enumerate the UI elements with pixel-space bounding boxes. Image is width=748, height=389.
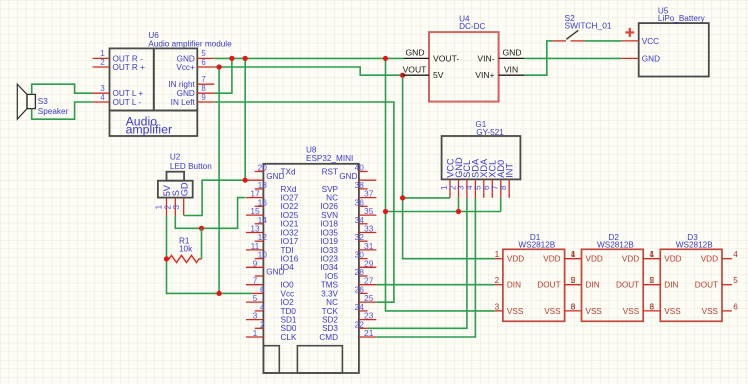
U6 pin 9 IN Left (171, 93, 215, 107)
U8 pin 35 SVN (right) (321, 206, 376, 220)
svg-text:VCC: VCC (642, 37, 659, 46)
junction node Vcc x219.1 (217, 64, 222, 69)
svg-text:10k: 10k (179, 245, 193, 254)
U8 pin 3 SD1 (left) (246, 311, 297, 325)
svg-text:GND: GND (266, 268, 284, 277)
svg-text:WS2812B: WS2812B (676, 241, 713, 250)
svg-text:DOUT: DOUT (616, 281, 639, 290)
svg-text:9: 9 (201, 93, 205, 102)
D2 pin 4 VDD (622, 250, 660, 263)
svg-text:38: 38 (355, 180, 365, 190)
U8 pin 32 IO19 (right) (320, 232, 367, 246)
U8 pin 11 TDI (left) (246, 241, 294, 255)
G1 pin 3 SCL (456, 160, 473, 198)
svg-text:1: 1 (571, 250, 576, 259)
D1 pin 3 VSS (495, 302, 524, 315)
svg-text:IO22: IO22 (281, 202, 299, 211)
plus polarity mark (625, 28, 634, 37)
U4 pin 5V stub with VOUT label (403, 64, 429, 75)
gyroscope module G1 GY-521 (442, 120, 521, 179)
U8 pin 1 CLK (left) (246, 328, 297, 342)
U8 pin 13 IO32 (left) (246, 224, 299, 238)
svg-text:IO2: IO2 (281, 298, 295, 307)
D2 pin 1 VDD (571, 250, 603, 263)
U6 pin 8 GND (177, 84, 215, 98)
wire GND branch to U6 pin8 (214, 58, 232, 93)
wire DIN: ESP32 pin27 to D1 DIN (376, 284, 495, 286)
junction node GY GND pin (456, 209, 461, 214)
U8 pin 39 GND (right) (339, 172, 376, 181)
svg-text:S3: S3 (38, 97, 48, 106)
U8 pin 12 IO17 (left) (255, 232, 299, 246)
wire GND net: U6 pin5 to U4 VOUT- (214, 57, 403, 59)
D3 pin 1 VDD (650, 250, 682, 263)
svg-text:IN right: IN right (168, 80, 195, 89)
svg-text:amplifier: amplifier (126, 123, 172, 137)
D2 pin 5 DOUT (616, 276, 660, 289)
svg-text:SVN: SVN (321, 211, 338, 220)
svg-text:VDD: VDD (586, 255, 603, 264)
G1 pin 1 VCC (439, 158, 456, 198)
U6 pin 6 Vcc+ (176, 58, 214, 72)
wire Vcc+ net: U6 pin6 to U4 5V (214, 67, 403, 75)
svg-text:VIN+: VIN+ (475, 70, 494, 80)
U2 pin 3 (171, 198, 184, 216)
svg-text:RST: RST (322, 167, 338, 176)
svg-text:3: 3 (253, 311, 258, 321)
WS2812B LED D3 (660, 233, 722, 321)
D1 pin 5 DOUT (537, 276, 581, 289)
svg-text:5: 5 (733, 276, 738, 285)
U8 pin 29 IO34 (right) (320, 258, 376, 272)
U4 pin VIN+ stub with VIN label (499, 64, 525, 75)
D3 pin 3 VSS (650, 302, 682, 315)
svg-text:DOUT: DOUT (695, 281, 718, 290)
junction node R1 right / button S (199, 226, 204, 231)
svg-text:SD2: SD2 (322, 316, 338, 325)
svg-text:IO21: IO21 (281, 220, 299, 229)
svg-text:Audio amplifier module: Audio amplifier module (148, 40, 232, 49)
wire SCL: GY-521 to ESP32 pin22 (368, 198, 467, 328)
G1 pin 8 INT (498, 163, 515, 198)
wire GND: U4 VIN- to battery GND (525, 57, 622, 59)
svg-text:TD0: TD0 (281, 307, 297, 316)
svg-text:6: 6 (260, 284, 265, 294)
svg-text:VIN-: VIN- (477, 53, 494, 63)
U8 pin 19 GND (left) (246, 172, 285, 181)
svg-text:VDD: VDD (664, 255, 681, 264)
wire GY-521 VCC to 5V net (403, 197, 450, 199)
svg-text:8: 8 (498, 185, 508, 190)
svg-text:32: 32 (355, 232, 365, 242)
U8 pin 8 GND (left) (255, 268, 285, 277)
U6 pin 7 IN right (168, 75, 214, 89)
svg-text:LED Button: LED Button (170, 162, 212, 171)
U6 pin 3 OUT L + (93, 84, 144, 98)
U8 pin 17 IO27 (left) (246, 189, 299, 203)
svg-text:IO17: IO17 (281, 237, 299, 246)
U8 pin 24 TCK (right) (322, 302, 368, 316)
svg-text:VDD: VDD (701, 255, 718, 264)
resistor R1 10k (167, 237, 202, 263)
svg-text:2: 2 (650, 276, 655, 285)
svg-text:3: 3 (171, 205, 181, 210)
LiPo battery U5 (639, 6, 709, 76)
svg-text:TMS: TMS (321, 281, 339, 290)
svg-text:25: 25 (364, 293, 374, 303)
U8 pin 4 TD0 (left) (255, 302, 297, 316)
WS2812B LED D2 (582, 233, 644, 321)
junction node GND at GY row (383, 209, 388, 214)
U5 pin VCC (622, 37, 660, 46)
D2 pin 6 VSS (623, 302, 660, 315)
svg-text:NC: NC (326, 298, 338, 307)
junction node Vcc row to ESP32 pin6 (217, 291, 222, 296)
svg-text:5: 5 (253, 293, 258, 303)
junction node VOUT at U4 row (400, 73, 405, 78)
LED button U2 (158, 153, 212, 198)
U8 pin 21 CMD (right) (319, 328, 376, 342)
wire U2 GD to ESP32 GND pin19 (184, 180, 246, 215)
U8 pin 7 IO0 (left) (246, 276, 294, 290)
svg-text:VSS: VSS (586, 307, 603, 316)
WS2812B LED D1 (503, 233, 565, 321)
U8 pin 25 NC (right) (326, 293, 376, 307)
svg-text:10: 10 (258, 250, 268, 260)
U8 pin 37 NC (right) (326, 189, 376, 203)
svg-text:IO26: IO26 (320, 202, 338, 211)
G1 pin 7 AD0 (490, 160, 507, 198)
U8 pin 40 RST (right) (322, 163, 368, 177)
svg-text:TDI: TDI (281, 246, 294, 255)
svg-text:35: 35 (364, 206, 374, 216)
svg-text:VOUT-: VOUT- (433, 53, 459, 63)
wire R1 right terminal up (201, 228, 203, 259)
U8 pin 15 IO25 (left) (246, 206, 299, 220)
U8 pin 28 IO5 (right) (325, 267, 368, 281)
svg-text:VSS: VSS (544, 307, 561, 316)
svg-text:1: 1 (253, 328, 258, 338)
svg-text:Vcc: Vcc (281, 289, 295, 298)
svg-text:Vcc+: Vcc+ (176, 63, 195, 72)
U8 pin 6 Vcc (left) (252, 284, 294, 298)
junction node GND x245.2 (243, 56, 248, 61)
U8 pin 34 IO18 (right) (320, 215, 367, 229)
svg-text:LiPo_Battery: LiPo_Battery (658, 14, 706, 23)
junction node 5V to GY VCC (400, 195, 405, 200)
svg-text:2: 2 (100, 58, 104, 67)
U8 pin 20 TXd (left) (255, 163, 296, 177)
U8 pin 18 RXd (left) (255, 180, 297, 194)
svg-text:IO19: IO19 (320, 237, 338, 246)
svg-text:TCK: TCK (322, 307, 339, 316)
svg-text:21: 21 (364, 328, 374, 338)
U6 pin 5 GND (177, 49, 215, 63)
svg-text:ESP32_MINI: ESP32_MINI (306, 154, 353, 163)
svg-text:VSS: VSS (702, 307, 719, 316)
svg-text:GND: GND (642, 54, 660, 63)
svg-text:WS2812B: WS2812B (597, 241, 634, 250)
U8 pin 30 IO23 (right) (320, 250, 367, 264)
svg-text:37: 37 (364, 189, 374, 199)
svg-text:IO35: IO35 (320, 228, 338, 237)
svg-text:IN Left: IN Left (171, 98, 196, 107)
svg-text:OUT R +: OUT R + (113, 63, 146, 72)
wire GND net vertical to VSS row (386, 58, 495, 311)
svg-text:OUT L +: OUT L + (113, 89, 144, 98)
svg-text:24: 24 (355, 302, 365, 312)
svg-text:RXd: RXd (281, 185, 297, 194)
D1 pin 6 VSS (544, 302, 581, 315)
wire GY-521 GND net (458, 198, 460, 212)
wire speaker top to U6 OUT L+ (32, 84, 93, 94)
D1 pin 1 VDD (495, 250, 525, 263)
D3 pin 6 VSS (702, 302, 739, 315)
svg-text:IO16: IO16 (281, 255, 299, 264)
svg-text:WS2812B: WS2812B (518, 241, 555, 250)
svg-text:1: 1 (495, 250, 500, 259)
svg-text:IO27: IO27 (281, 194, 299, 203)
U8 pin 10 IO16 (left) (255, 250, 299, 264)
svg-text:1: 1 (650, 250, 655, 259)
wire speaker bottom to U6 OUT L- (32, 102, 93, 119)
wire Vcc+ branch down to ESP32 Vcc row (218, 67, 220, 293)
svg-text:DIN: DIN (586, 281, 600, 290)
svg-text:2: 2 (260, 319, 265, 329)
svg-text:36: 36 (355, 197, 365, 207)
D2 pin 2 DIN (571, 276, 600, 289)
svg-text:VDD: VDD (507, 255, 524, 264)
svg-text:NC: NC (326, 194, 338, 203)
svg-text:29: 29 (364, 258, 374, 268)
svg-text:IO18: IO18 (320, 220, 338, 229)
svg-text:33: 33 (364, 224, 374, 234)
svg-text:SD1: SD1 (281, 316, 297, 325)
svg-text:IO33: IO33 (320, 246, 338, 255)
D3 pin 4 VDD (701, 250, 739, 263)
svg-text:U2: U2 (170, 153, 181, 162)
svg-text:28: 28 (355, 267, 365, 277)
svg-text:VOUT: VOUT (403, 64, 428, 74)
junction node GND x231.9 (229, 56, 234, 61)
svg-text:6: 6 (201, 58, 205, 67)
svg-text:2: 2 (495, 276, 500, 285)
svg-text:IO34: IO34 (320, 263, 338, 272)
wire VIN+ to switch (525, 41, 553, 75)
U6 pin 1 OUT R - (93, 49, 143, 63)
U8 pin 22 SD3 (right) (322, 319, 368, 333)
junction node GND at U4 row (383, 56, 388, 61)
svg-text:DOUT: DOUT (537, 281, 560, 290)
svg-text:SVP: SVP (322, 185, 339, 194)
U8 pin 31 IO33 (right) (320, 241, 376, 255)
svg-text:CLK: CLK (281, 333, 297, 342)
svg-text:VDD: VDD (622, 255, 639, 264)
U2 pin 2 (163, 198, 176, 216)
svg-text:7: 7 (201, 75, 205, 84)
svg-text:5V: 5V (433, 70, 444, 80)
U8 pin 14 IO21 (left) (255, 215, 299, 229)
svg-text:VIN: VIN (504, 64, 518, 74)
svg-text:6: 6 (733, 302, 738, 311)
svg-text:GND: GND (502, 48, 521, 58)
svg-text:SD3: SD3 (322, 324, 338, 333)
U8 pin 2 SD0 (left) (255, 319, 297, 333)
D3 pin 2 DIN (650, 276, 679, 289)
svg-text:VSS: VSS (664, 307, 681, 316)
svg-text:SD0: SD0 (281, 324, 297, 333)
svg-text:3: 3 (495, 302, 500, 311)
U8 pin 38 SVP (right) (322, 180, 368, 194)
D2 pin 3 VSS (571, 302, 603, 315)
svg-text:3.3V: 3.3V (321, 289, 338, 298)
svg-text:VSS: VSS (623, 307, 640, 316)
G1 pin 6 XCL (481, 160, 498, 198)
D1 pin 4 VDD (543, 250, 581, 263)
G1 pin 5 XDA (473, 158, 490, 198)
G1 pin 4 SDA (464, 158, 481, 198)
speaker S3 (17, 84, 68, 119)
svg-text:CMD: CMD (319, 333, 338, 342)
svg-text:31: 31 (364, 241, 374, 251)
svg-text:SWITCH_01: SWITCH_01 (565, 21, 612, 31)
U8 pin 26 3.3V (right) (321, 284, 367, 298)
DC-DC converter U4 (429, 15, 499, 102)
wire GND branch down to ESP32 pin19 (244, 58, 246, 180)
U6 pin 2 OUT R + (93, 58, 145, 72)
svg-text:27: 27 (364, 276, 374, 286)
svg-text:GND: GND (405, 48, 424, 58)
U8 pin 27 TMS (right) (321, 276, 377, 290)
U4 pin VIN- stub with GND label (499, 48, 525, 59)
svg-text:DIN: DIN (507, 281, 521, 290)
svg-text:IO32: IO32 (281, 228, 299, 237)
svg-text:GND: GND (177, 89, 195, 98)
audio amplifier module U6 (110, 31, 233, 136)
svg-text:GY-521: GY-521 (476, 128, 504, 137)
switch S2 SWITCH_01 (553, 13, 612, 41)
D3 pin 5 DOUT (695, 276, 738, 289)
svg-text:7: 7 (253, 276, 258, 286)
wire U2 S to ESP32 IO27 (175, 198, 245, 229)
svg-text:4: 4 (260, 302, 265, 312)
U5 pin GND (622, 54, 661, 63)
svg-text:GD: GD (180, 182, 190, 196)
wire 5V net vertical to VDD row (403, 75, 495, 259)
U8 pin 16 IO22 (left) (255, 197, 299, 211)
svg-text:4: 4 (733, 250, 738, 259)
U2 pin 1 (154, 198, 167, 216)
U8 pin 9 IO4 (left) (246, 258, 294, 272)
U6 pin 4 OUT L - (93, 93, 142, 107)
svg-text:30: 30 (355, 250, 365, 260)
D1 pin 2 DIN (495, 276, 521, 289)
wire IN Left: U6 pin9 to ESP32 pin25 (214, 102, 394, 302)
U8 pin 5 IO2 (left) (246, 293, 294, 307)
svg-text:INT: INT (505, 163, 515, 178)
svg-text:Speaker: Speaker (38, 107, 69, 116)
U8 pin 33 IO35 (right) (320, 224, 376, 238)
svg-text:DIN: DIN (664, 281, 678, 290)
wire U2 5V down to ESP32 Vcc row (167, 216, 253, 294)
G1 pin 2 GND (447, 157, 464, 198)
svg-text:IO0: IO0 (281, 281, 295, 290)
ESP32 module U8 (263, 145, 359, 373)
svg-text:8: 8 (201, 84, 205, 93)
svg-text:2: 2 (571, 276, 576, 285)
U8 pin 36 IO26 (right) (320, 197, 367, 211)
svg-text:3: 3 (650, 302, 655, 311)
svg-text:34: 34 (355, 215, 365, 225)
svg-text:GND: GND (266, 172, 284, 181)
svg-text:23: 23 (364, 311, 374, 321)
wire switch to battery VCC (585, 40, 622, 42)
svg-text:IO5: IO5 (325, 272, 339, 281)
svg-text:IO25: IO25 (281, 211, 299, 220)
svg-text:3: 3 (571, 302, 576, 311)
svg-text:26: 26 (355, 284, 365, 294)
svg-text:22: 22 (355, 319, 365, 329)
U4 pin VOUT- stub with GND label (403, 48, 429, 59)
wire SDA: GY-521 to ESP32 pin21 (376, 198, 475, 337)
U8 pin 23 SD2 (right) (322, 311, 376, 325)
junction node R1 left on 5V vertical (164, 256, 169, 261)
svg-text:VSS: VSS (507, 307, 524, 316)
svg-text:VDD: VDD (543, 255, 560, 264)
svg-text:9: 9 (253, 258, 258, 268)
junction node ESP32 pin19 GND (243, 178, 248, 183)
svg-text:IO23: IO23 (320, 255, 338, 264)
svg-text:OUT L -: OUT L - (113, 98, 142, 107)
svg-text:DC-DC: DC-DC (459, 22, 485, 31)
svg-text:4: 4 (100, 93, 105, 102)
svg-text:3: 3 (100, 84, 104, 93)
